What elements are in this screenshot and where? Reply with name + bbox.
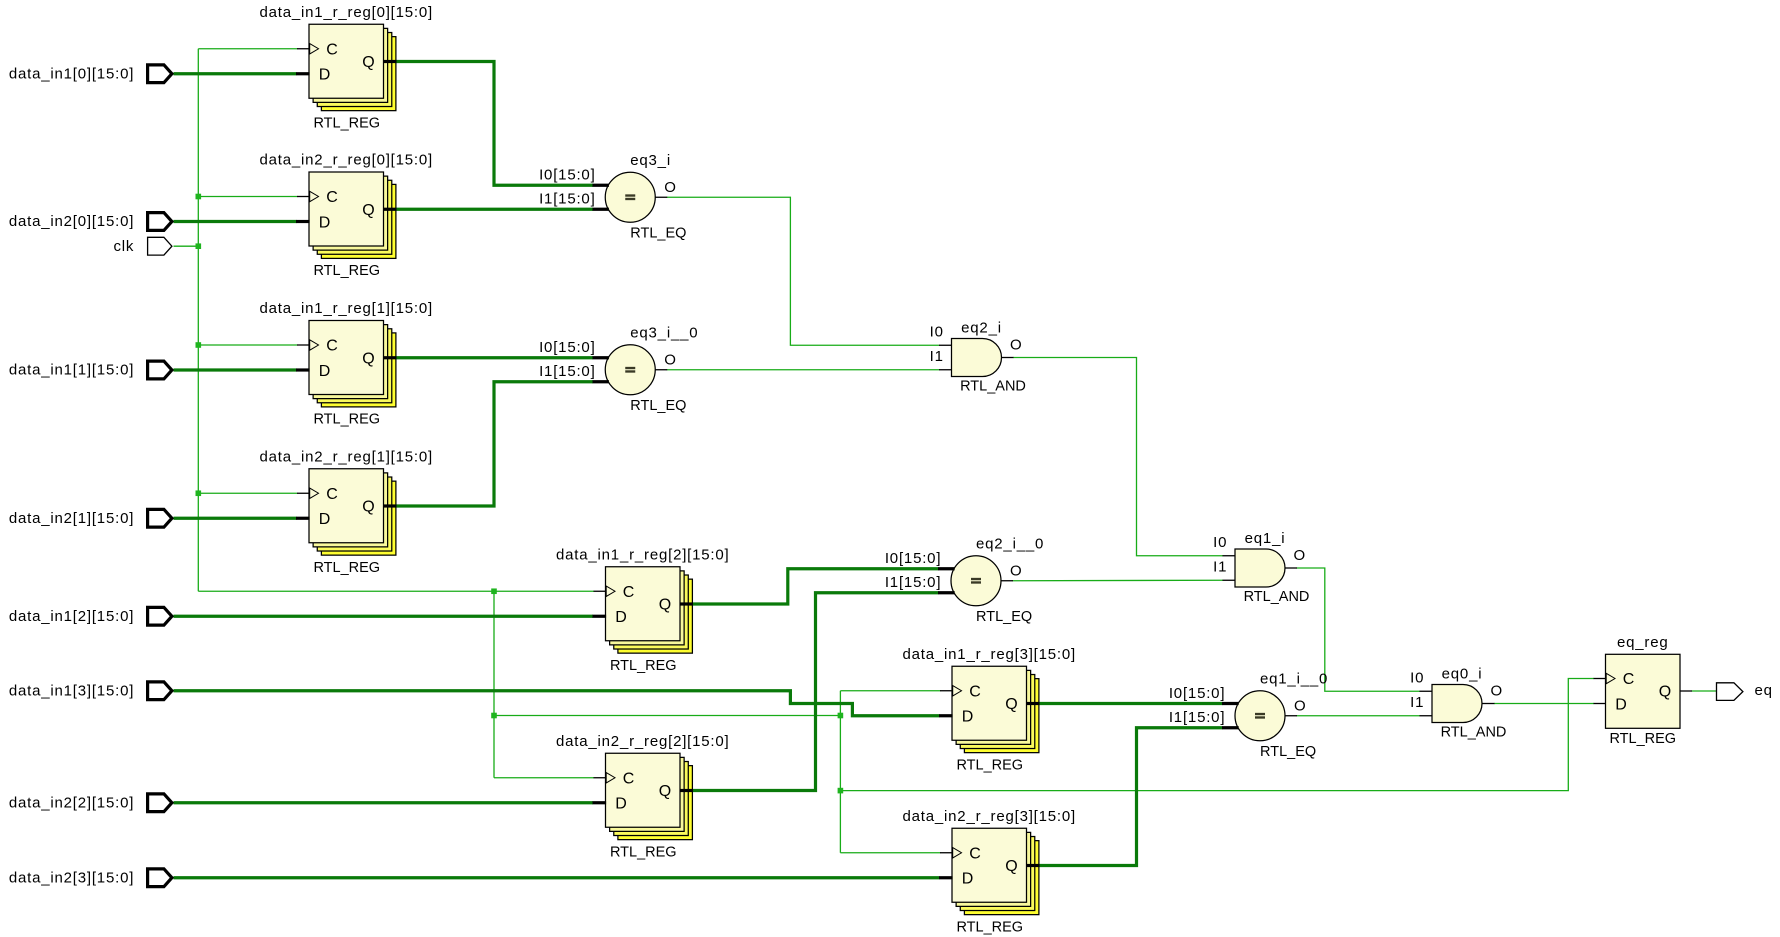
svg-text:RTL_EQ: RTL_EQ bbox=[1260, 744, 1316, 760]
op AND gate eq1_i (RTL_AND) bbox=[1213, 530, 1309, 605]
svg-text:data_in2_r_reg[2][15:0]: data_in2_r_reg[2][15:0] bbox=[556, 733, 730, 750]
wire net clk branch to data_in2_r_reg[0] C bbox=[198, 196, 297, 198]
svg-text:RTL_EQ: RTL_EQ bbox=[630, 225, 686, 241]
svg-text:RTL_REG: RTL_REG bbox=[313, 412, 380, 428]
svg-text:O: O bbox=[1010, 337, 1022, 354]
stub eq3_i O bbox=[655, 196, 667, 198]
stub eq2_i__0 I0 bbox=[938, 567, 955, 570]
wire bus data_in1_r[0] Q to eq3_i I0 bbox=[396, 62, 593, 186]
svg-text:RTL_REG: RTL_REG bbox=[1609, 731, 1676, 747]
svg-text:eq0_i: eq0_i bbox=[1442, 666, 1483, 683]
stub eq0_i I0 bbox=[1420, 690, 1433, 692]
svg-text:I1[15:0]: I1[15:0] bbox=[885, 574, 941, 591]
register data_in2_r_reg[2][15:0] (RTL_REG) bbox=[556, 733, 730, 861]
svg-text:I1: I1 bbox=[1213, 558, 1227, 575]
svg-text:O: O bbox=[1491, 683, 1503, 700]
junction clk at data_in2_r_reg[1] C branch bbox=[196, 490, 202, 496]
stub data_in2_r_reg[1] C bbox=[297, 492, 310, 494]
svg-text:O: O bbox=[664, 179, 676, 196]
wire net eq2_i__0 O to eq1_i I1 bbox=[1013, 579, 1224, 582]
wire net clk branch to data_in2_r_reg[3] C bbox=[840, 852, 940, 854]
svg-text:O: O bbox=[1294, 697, 1306, 714]
svg-text:data_in1[0][15:0]: data_in1[0][15:0] bbox=[9, 65, 134, 82]
stub data_in2_r_reg[1] Q bbox=[384, 504, 397, 507]
input port data_in2[3][15:0] bbox=[9, 869, 172, 887]
svg-text:Q: Q bbox=[362, 350, 374, 367]
wire net clk branch to data_in1_r_reg[0] C bbox=[198, 48, 297, 50]
wire net clk branch to data_in2_r_reg[2] C bbox=[494, 777, 594, 779]
svg-text:eq: eq bbox=[1755, 682, 1773, 699]
svg-text:RTL_AND: RTL_AND bbox=[1244, 589, 1310, 605]
stub data_in2_r_reg[3] D bbox=[939, 876, 953, 879]
svg-text:Q: Q bbox=[1005, 858, 1017, 875]
svg-text:Q: Q bbox=[659, 597, 671, 614]
register data_in2_r_reg[3][15:0] (RTL_REG) bbox=[902, 808, 1076, 936]
stub eq1_i__0 O bbox=[1285, 715, 1297, 717]
svg-text:C: C bbox=[1623, 671, 1635, 688]
svg-text:C: C bbox=[326, 338, 338, 355]
svg-text:eq_reg: eq_reg bbox=[1617, 634, 1669, 651]
svg-text:eq3_i: eq3_i bbox=[630, 152, 671, 169]
stub eq_reg C bbox=[1594, 678, 1606, 680]
svg-text:D: D bbox=[615, 609, 627, 626]
svg-text:I0: I0 bbox=[1410, 669, 1424, 686]
svg-text:O: O bbox=[1294, 547, 1306, 564]
stub data_in1_r_reg[0] Q bbox=[384, 60, 397, 63]
wire bus data_in1_r[2] Q to eq2_i__0 I0 bbox=[692, 569, 938, 604]
junction clk trunk3 to eq_reg run bbox=[838, 788, 844, 794]
svg-text:eq1_i: eq1_i bbox=[1245, 530, 1286, 547]
stub data_in2_r_reg[3] Q bbox=[1027, 864, 1040, 867]
svg-text:RTL_EQ: RTL_EQ bbox=[630, 398, 686, 414]
svg-text:C: C bbox=[969, 845, 981, 862]
svg-text:data_in2[0][15:0]: data_in2[0][15:0] bbox=[9, 213, 134, 230]
stub data_in1_r_reg[0] C bbox=[297, 48, 310, 50]
stub data_in1_r_reg[0] D bbox=[296, 72, 310, 75]
stub data_in2_r_reg[3] C bbox=[940, 852, 953, 854]
svg-text:I0: I0 bbox=[1213, 534, 1227, 551]
svg-text:I0[15:0]: I0[15:0] bbox=[539, 339, 595, 356]
junction clk at clk port feed bbox=[196, 243, 202, 249]
wire net clk vertical trunk 2 bbox=[493, 591, 495, 778]
input port data_in2[1][15:0] bbox=[9, 509, 172, 527]
svg-text:I1: I1 bbox=[1410, 694, 1424, 711]
junction clk trunk3 cross link bbox=[838, 713, 844, 719]
wire net clk branch to data_in1_r_reg[3] C bbox=[840, 690, 940, 692]
svg-text:D: D bbox=[962, 709, 974, 726]
svg-text:C: C bbox=[326, 189, 338, 206]
svg-text:Q: Q bbox=[659, 783, 671, 800]
stub eq0_i I1 bbox=[1420, 715, 1433, 717]
stub eq2_i I1 bbox=[939, 369, 952, 371]
stub data_in2_r_reg[0] D bbox=[296, 220, 310, 223]
stub eq2_i__0 O bbox=[1001, 580, 1013, 582]
stub data_in2_r_reg[1] D bbox=[296, 517, 310, 520]
wire net eq0_i O to eq_reg D bbox=[1494, 703, 1594, 705]
output port eq bbox=[1717, 682, 1773, 700]
svg-text:data_in1[1][15:0]: data_in1[1][15:0] bbox=[9, 362, 134, 379]
svg-text:RTL_REG: RTL_REG bbox=[313, 115, 380, 131]
input port clk bbox=[113, 237, 171, 255]
svg-text:O: O bbox=[664, 351, 676, 368]
input port data_in2[0][15:0] bbox=[9, 213, 172, 231]
wire net eq_reg Q to output port eq bbox=[1692, 690, 1717, 692]
input port data_in2[2][15:0] bbox=[9, 794, 172, 812]
wire bus data_in1_r[1] Q to eq3_i__0 I0 bbox=[396, 356, 593, 359]
wire bus data_in2_r[0] Q to eq3_i I1 bbox=[396, 208, 593, 211]
wire bus data_in2[3] port to data_in2_r_reg[3] D bbox=[174, 876, 940, 879]
svg-text:eq2_i__0: eq2_i__0 bbox=[976, 535, 1044, 552]
svg-text:D: D bbox=[319, 363, 331, 380]
junction clk trunk2 cross link bbox=[491, 713, 497, 719]
register data_in2_r_reg[1][15:0] (RTL_REG) bbox=[259, 448, 433, 576]
stub eq1_i I1 bbox=[1223, 579, 1236, 581]
stub eq1_i__0 I0 bbox=[1222, 702, 1239, 705]
op AND gate eq0_i (RTL_AND) bbox=[1410, 666, 1506, 741]
stub data_in2_r_reg[0] Q bbox=[384, 208, 397, 211]
stub eq0_i O bbox=[1482, 703, 1495, 705]
stub data_in1_r_reg[3] D bbox=[939, 714, 953, 717]
wire net clk vertical trunk 3 bbox=[839, 691, 841, 853]
stub eq2_i I0 bbox=[939, 344, 952, 346]
wire bus data_in1_r[3] Q to eq1_i__0 I0 bbox=[1039, 702, 1223, 705]
register data_in2_r_reg[0][15:0] (RTL_REG) bbox=[259, 152, 433, 280]
svg-text:C: C bbox=[623, 770, 635, 787]
svg-text:Q: Q bbox=[1005, 696, 1017, 713]
input port data_in1[3][15:0] bbox=[9, 682, 172, 700]
svg-text:D: D bbox=[615, 796, 627, 813]
wire bus data_in2_r[3] Q to eq1_i__0 I1 bbox=[1039, 728, 1223, 866]
svg-text:C: C bbox=[623, 584, 635, 601]
wire net eq3_i__0 O to eq2_i I1 bbox=[667, 369, 940, 371]
svg-text:eq1_i__0: eq1_i__0 bbox=[1260, 670, 1328, 687]
svg-text:data_in2[2][15:0]: data_in2[2][15:0] bbox=[9, 794, 134, 811]
svg-text:RTL_AND: RTL_AND bbox=[960, 379, 1026, 395]
svg-text:RTL_REG: RTL_REG bbox=[956, 757, 1023, 773]
stub eq3_i__0 I0 bbox=[593, 356, 609, 359]
wire net eq3_i O to eq2_i I0 bbox=[667, 197, 940, 345]
svg-text:I1[15:0]: I1[15:0] bbox=[1169, 709, 1225, 726]
wire bus data_in2[1] port to data_in2_r_reg[1] D bbox=[174, 517, 297, 520]
register data_in1_r_reg[3][15:0] (RTL_REG) bbox=[902, 646, 1076, 774]
svg-text:RTL_REG: RTL_REG bbox=[956, 919, 1023, 935]
wire net clk branch to data_in1_r_reg[1] C bbox=[198, 344, 297, 346]
stub data_in1_r_reg[3] C bbox=[940, 690, 953, 692]
svg-text:I0[15:0]: I0[15:0] bbox=[885, 550, 941, 567]
svg-text:RTL_REG: RTL_REG bbox=[313, 263, 380, 279]
stub data_in1_r_reg[1] C bbox=[297, 344, 310, 346]
stub data_in2_r_reg[2] D bbox=[593, 801, 607, 804]
junction clk trunk2 top bbox=[491, 588, 497, 594]
svg-text:D: D bbox=[962, 871, 974, 888]
svg-text:D: D bbox=[319, 67, 331, 84]
op eq comparator eq1_i__0 (RTL_EQ) bbox=[1169, 670, 1328, 760]
svg-text:RTL_EQ: RTL_EQ bbox=[976, 609, 1032, 625]
svg-text:RTL_REG: RTL_REG bbox=[313, 560, 380, 576]
svg-text:D: D bbox=[319, 511, 331, 528]
svg-text:data_in1[3][15:0]: data_in1[3][15:0] bbox=[9, 682, 134, 699]
junction clk at data_in1_r_reg[1] C branch bbox=[196, 342, 202, 348]
svg-text:D: D bbox=[1615, 696, 1627, 713]
stub data_in2_r_reg[2] Q bbox=[680, 789, 693, 792]
wire net clk horizontal to data_in1_r_reg[2] C bbox=[198, 590, 594, 592]
svg-text:data_in2_r_reg[1][15:0]: data_in2_r_reg[1][15:0] bbox=[259, 448, 433, 465]
svg-text:I1[15:0]: I1[15:0] bbox=[539, 190, 595, 207]
wire bus data_in2[2] port to data_in2_r_reg[2] D bbox=[174, 801, 594, 804]
svg-text:C: C bbox=[969, 683, 981, 700]
svg-text:data_in1_r_reg[3][15:0]: data_in1_r_reg[3][15:0] bbox=[902, 646, 1076, 663]
register data_in1_r_reg[1][15:0] (RTL_REG) bbox=[259, 300, 433, 428]
svg-text:eq2_i: eq2_i bbox=[961, 320, 1002, 337]
svg-text:Q: Q bbox=[1659, 684, 1671, 701]
wire bus data_in1[3] port to data_in1_r_reg[3] D (jogged) bbox=[174, 691, 940, 716]
op eq comparator eq3_i__0 (RTL_EQ) bbox=[539, 324, 698, 414]
svg-text:C: C bbox=[326, 41, 338, 58]
register eq_reg (RTL_REG) bbox=[1606, 634, 1681, 747]
wire bus data_in2_r[2] Q to eq2_i__0 I1 bbox=[692, 593, 938, 791]
svg-text:data_in2[3][15:0]: data_in2[3][15:0] bbox=[9, 869, 134, 886]
junction clk at data_in2_r_reg[0] C branch bbox=[196, 194, 202, 200]
stub data_in1_r_reg[2] D bbox=[593, 615, 607, 618]
stub eq1_i O bbox=[1285, 567, 1297, 569]
stub eq1_i I0 bbox=[1223, 555, 1236, 557]
wire net eq1_i__0 O to eq0_i I1 bbox=[1297, 715, 1421, 717]
svg-text:data_in1_r_reg[1][15:0]: data_in1_r_reg[1][15:0] bbox=[259, 300, 433, 317]
stub data_in1_r_reg[3] Q bbox=[1027, 702, 1040, 705]
stub eq_reg D bbox=[1594, 703, 1606, 705]
svg-text:O: O bbox=[1010, 562, 1022, 579]
svg-text:C: C bbox=[326, 486, 338, 503]
stub data_in2_r_reg[0] C bbox=[297, 196, 310, 198]
stub data_in1_r_reg[2] C bbox=[594, 590, 607, 592]
wire bus data_in1[1] port to data_in1_r_reg[1] D bbox=[174, 368, 297, 371]
svg-text:data_in1_r_reg[2][15:0]: data_in1_r_reg[2][15:0] bbox=[556, 546, 730, 563]
stub data_in1_r_reg[2] Q bbox=[680, 602, 693, 605]
wire net clk vertical trunk 1 bbox=[197, 49, 199, 592]
stub eq_reg Q bbox=[1680, 690, 1692, 692]
svg-text:Q: Q bbox=[362, 202, 374, 219]
stub eq2_i__0 I1 bbox=[938, 591, 955, 594]
stub data_in1_r_reg[1] Q bbox=[384, 356, 397, 359]
svg-text:RTL_REG: RTL_REG bbox=[610, 658, 677, 674]
svg-text:I1[15:0]: I1[15:0] bbox=[539, 363, 595, 380]
input port data_in1[1][15:0] bbox=[9, 361, 172, 379]
wire bus data_in2[0] port to data_in2_r_reg[0] D bbox=[174, 220, 297, 223]
svg-text:data_in1[2][15:0]: data_in1[2][15:0] bbox=[9, 608, 134, 625]
stub eq3_i__0 I1 bbox=[593, 380, 609, 383]
stub data_in1_r_reg[1] D bbox=[296, 368, 310, 371]
svg-text:I1: I1 bbox=[930, 348, 944, 365]
stub eq3_i I1 bbox=[593, 208, 609, 211]
register data_in1_r_reg[0][15:0] (RTL_REG) bbox=[259, 4, 433, 132]
wire net clk long run to eq_reg C bbox=[840, 679, 1594, 791]
wire bus data_in2_r[1] Q to eq3_i__0 I1 bbox=[396, 382, 593, 506]
svg-text:I0[15:0]: I0[15:0] bbox=[539, 166, 595, 183]
wire net eq1_i O to eq0_i I0 bbox=[1297, 568, 1421, 691]
svg-text:data_in2_r_reg[3][15:0]: data_in2_r_reg[3][15:0] bbox=[902, 808, 1076, 825]
svg-text:I0[15:0]: I0[15:0] bbox=[1169, 685, 1225, 702]
svg-text:data_in2[1][15:0]: data_in2[1][15:0] bbox=[9, 510, 134, 527]
svg-text:I0: I0 bbox=[930, 323, 944, 340]
stub data_in2_r_reg[2] C bbox=[594, 777, 607, 779]
svg-text:D: D bbox=[319, 214, 331, 231]
op eq comparator eq3_i (RTL_EQ) bbox=[539, 152, 686, 242]
stub eq3_i I0 bbox=[593, 184, 609, 187]
input port data_in1[0][15:0] bbox=[9, 65, 172, 83]
register data_in1_r_reg[2][15:0] (RTL_REG) bbox=[556, 546, 730, 674]
svg-text:Q: Q bbox=[362, 499, 374, 516]
svg-text:data_in2_r_reg[0][15:0]: data_in2_r_reg[0][15:0] bbox=[259, 152, 433, 169]
stub eq1_i__0 I1 bbox=[1222, 726, 1239, 729]
svg-text:data_in1_r_reg[0][15:0]: data_in1_r_reg[0][15:0] bbox=[259, 4, 433, 21]
stub eq3_i__0 O bbox=[655, 369, 667, 371]
svg-text:RTL_AND: RTL_AND bbox=[1441, 725, 1507, 741]
input port data_in1[2][15:0] bbox=[9, 607, 172, 625]
wire net eq2_i O to eq1_i I0 bbox=[1013, 358, 1223, 556]
wire net clk branch to data_in2_r_reg[1] C bbox=[198, 492, 297, 494]
wire net clk port to trunk bbox=[174, 245, 199, 247]
svg-text:RTL_REG: RTL_REG bbox=[610, 844, 677, 860]
svg-text:Q: Q bbox=[362, 54, 374, 71]
svg-text:eq3_i__0: eq3_i__0 bbox=[630, 324, 698, 341]
wire bus data_in1[2] port to data_in1_r_reg[2] D bbox=[174, 615, 594, 618]
stub eq2_i O bbox=[1002, 357, 1014, 359]
wire bus data_in1[0] port to data_in1_r_reg[0] D bbox=[174, 72, 297, 75]
op AND gate eq2_i (RTL_AND) bbox=[930, 320, 1026, 395]
wire net clk cross link to trunk 3 bbox=[494, 715, 840, 717]
svg-text:clk: clk bbox=[113, 238, 134, 255]
op eq comparator eq2_i__0 (RTL_EQ) bbox=[885, 535, 1044, 625]
